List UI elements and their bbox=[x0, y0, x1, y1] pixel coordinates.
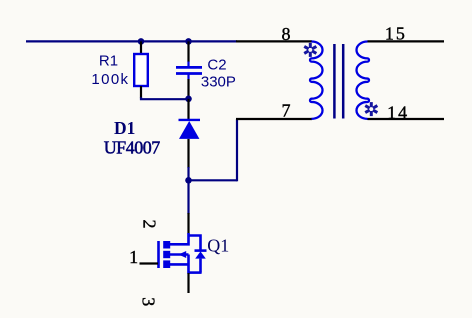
node junction dot C2-R1-D1 bbox=[185, 96, 192, 103]
pin transformer pin 14 lead bbox=[368, 118, 445, 120]
pin transformer pin 8 lead bbox=[236, 40, 312, 42]
svg-text:7: 7 bbox=[282, 100, 291, 120]
svg-text:3: 3 bbox=[139, 297, 159, 306]
svg-text:D1: D1 bbox=[114, 118, 135, 138]
pin Q1 drain lead (pin 2) bbox=[187, 213, 189, 234]
pin C2 bottom lead bbox=[187, 74, 189, 80]
pin R1 top lead bbox=[140, 41, 142, 55]
pin Q1 gate lead (pin 1) bbox=[140, 262, 159, 264]
wire D1 to Q1 drain bbox=[187, 167, 189, 214]
pin D1 cathode lead bbox=[187, 99, 189, 120]
wire node to transformer pin7 horizontal bbox=[189, 179, 238, 181]
pin transformer pin 15 lead bbox=[368, 40, 445, 42]
pin C2 top lead bbox=[187, 41, 189, 62]
polarity dot secondary (asterisk) bbox=[365, 102, 377, 116]
svg-text:14: 14 bbox=[387, 103, 409, 123]
svg-text:2: 2 bbox=[140, 220, 160, 229]
svg-text:15: 15 bbox=[385, 24, 407, 44]
svg-text:8: 8 bbox=[282, 24, 291, 44]
pin R1 bottom lead bbox=[140, 86, 142, 98]
transistor Q1 MOSFET bbox=[159, 233, 207, 274]
pin D1 anode lead bbox=[187, 139, 189, 168]
pin transformer pin 7 lead bbox=[236, 118, 312, 120]
wire top rail bbox=[26, 40, 237, 42]
diode D1 bbox=[179, 120, 201, 139]
wire R1 bottom to node bbox=[141, 97, 189, 99]
transformer core bbox=[334, 44, 343, 119]
node junction dot top C2 bbox=[185, 38, 192, 45]
svg-text:Q1: Q1 bbox=[207, 236, 229, 256]
node junction dot top R1 bbox=[138, 38, 145, 45]
svg-text:C2: C2 bbox=[207, 56, 226, 73]
resistor R1 bbox=[134, 54, 148, 86]
transformer secondary winding bbox=[357, 42, 370, 119]
transformer primary winding bbox=[310, 42, 323, 119]
pin Q1 source lead (pin 3) bbox=[187, 273, 189, 293]
wire vertical up to pin7 bbox=[236, 119, 238, 181]
svg-text:100k: 100k bbox=[91, 71, 129, 88]
svg-text:R1: R1 bbox=[99, 52, 118, 69]
capacitor C2 plate 2 bbox=[176, 72, 202, 75]
svg-text:330P: 330P bbox=[201, 74, 236, 91]
capacitor C2 plate 1 bbox=[176, 66, 202, 69]
node junction dot drain bbox=[185, 177, 192, 184]
polarity dot primary (asterisk) bbox=[304, 43, 316, 57]
svg-text:UF4007: UF4007 bbox=[104, 138, 161, 158]
svg-text:1: 1 bbox=[129, 247, 138, 267]
